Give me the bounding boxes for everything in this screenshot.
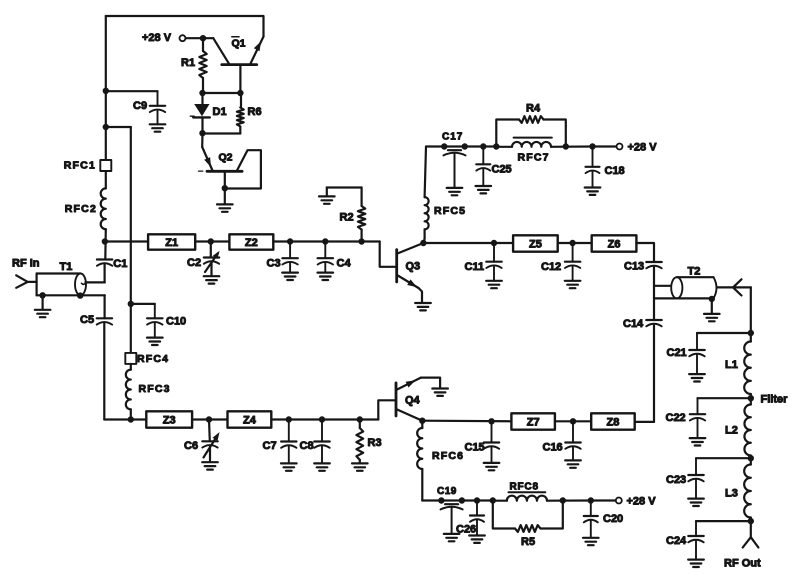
- svg-text:R2: R2: [340, 212, 354, 224]
- svg-text:C15: C15: [465, 442, 485, 454]
- svg-text:C12: C12: [541, 261, 561, 273]
- svg-text:C18: C18: [605, 165, 625, 177]
- svg-text:RF Out: RF Out: [724, 558, 761, 570]
- svg-text:D1: D1: [213, 106, 227, 118]
- svg-text:Z5: Z5: [529, 238, 542, 250]
- svg-text:RFC5: RFC5: [434, 205, 466, 217]
- svg-text:L2: L2: [725, 425, 738, 437]
- svg-text:R1: R1: [181, 57, 195, 69]
- svg-text:C1: C1: [113, 258, 127, 270]
- svg-text:C19: C19: [437, 486, 457, 497]
- svg-text:+28 V: +28 V: [628, 142, 658, 154]
- svg-text:T1: T1: [60, 261, 73, 273]
- svg-text:C25: C25: [492, 164, 512, 176]
- svg-text:C5: C5: [80, 314, 94, 326]
- svg-text:RFC3: RFC3: [139, 383, 171, 395]
- svg-text:R6: R6: [248, 106, 262, 118]
- svg-text:C14: C14: [623, 318, 644, 330]
- svg-text:RF In: RF In: [12, 258, 40, 270]
- svg-text:Z6: Z6: [608, 238, 621, 250]
- svg-text:C7: C7: [263, 440, 277, 452]
- svg-text:Z2: Z2: [245, 237, 258, 249]
- svg-text:C22: C22: [666, 412, 686, 424]
- svg-text:Q1: Q1: [232, 38, 246, 50]
- svg-text:C6: C6: [184, 440, 198, 452]
- svg-text:C26: C26: [456, 524, 476, 536]
- svg-text:C16: C16: [543, 442, 563, 454]
- svg-text:C23: C23: [666, 474, 686, 486]
- svg-text:R5: R5: [521, 536, 535, 548]
- svg-text:L1: L1: [725, 359, 738, 371]
- svg-text:C11: C11: [465, 261, 485, 273]
- svg-text:C3: C3: [267, 258, 281, 270]
- svg-text:C4: C4: [337, 258, 352, 270]
- svg-text:RFC6: RFC6: [432, 450, 464, 462]
- svg-text:Z8: Z8: [607, 416, 620, 428]
- svg-text:C13: C13: [624, 261, 644, 273]
- svg-text:Z3: Z3: [163, 414, 176, 426]
- svg-text:Q3: Q3: [406, 261, 421, 273]
- svg-text:Z4: Z4: [243, 414, 257, 426]
- svg-text:R3: R3: [368, 437, 382, 449]
- svg-text:RFC1: RFC1: [64, 160, 96, 172]
- svg-text:C9: C9: [133, 100, 147, 112]
- svg-text:+28 V: +28 V: [627, 496, 657, 508]
- svg-text:Q4: Q4: [405, 395, 421, 407]
- svg-text:C21: C21: [667, 347, 687, 359]
- svg-text:Z7: Z7: [527, 416, 540, 428]
- svg-text:C17: C17: [442, 132, 463, 143]
- svg-text:R4: R4: [526, 103, 541, 115]
- svg-text:Q2: Q2: [219, 151, 233, 163]
- svg-text:+28 V: +28 V: [142, 32, 172, 44]
- svg-text:T2: T2: [688, 266, 701, 278]
- svg-text:RFC7: RFC7: [518, 152, 550, 164]
- svg-text:L3: L3: [725, 488, 738, 500]
- svg-text:RFC8: RFC8: [510, 482, 539, 493]
- svg-text:C2: C2: [187, 257, 201, 269]
- svg-text:C10: C10: [166, 316, 186, 328]
- svg-text:RFC4: RFC4: [137, 353, 169, 365]
- svg-text:C20: C20: [603, 513, 623, 525]
- svg-text:RFC2: RFC2: [65, 203, 97, 215]
- svg-text:C24: C24: [666, 535, 687, 547]
- svg-text:C8: C8: [300, 440, 314, 452]
- svg-text:Filter: Filter: [761, 394, 789, 406]
- svg-text:Z1: Z1: [165, 237, 178, 249]
